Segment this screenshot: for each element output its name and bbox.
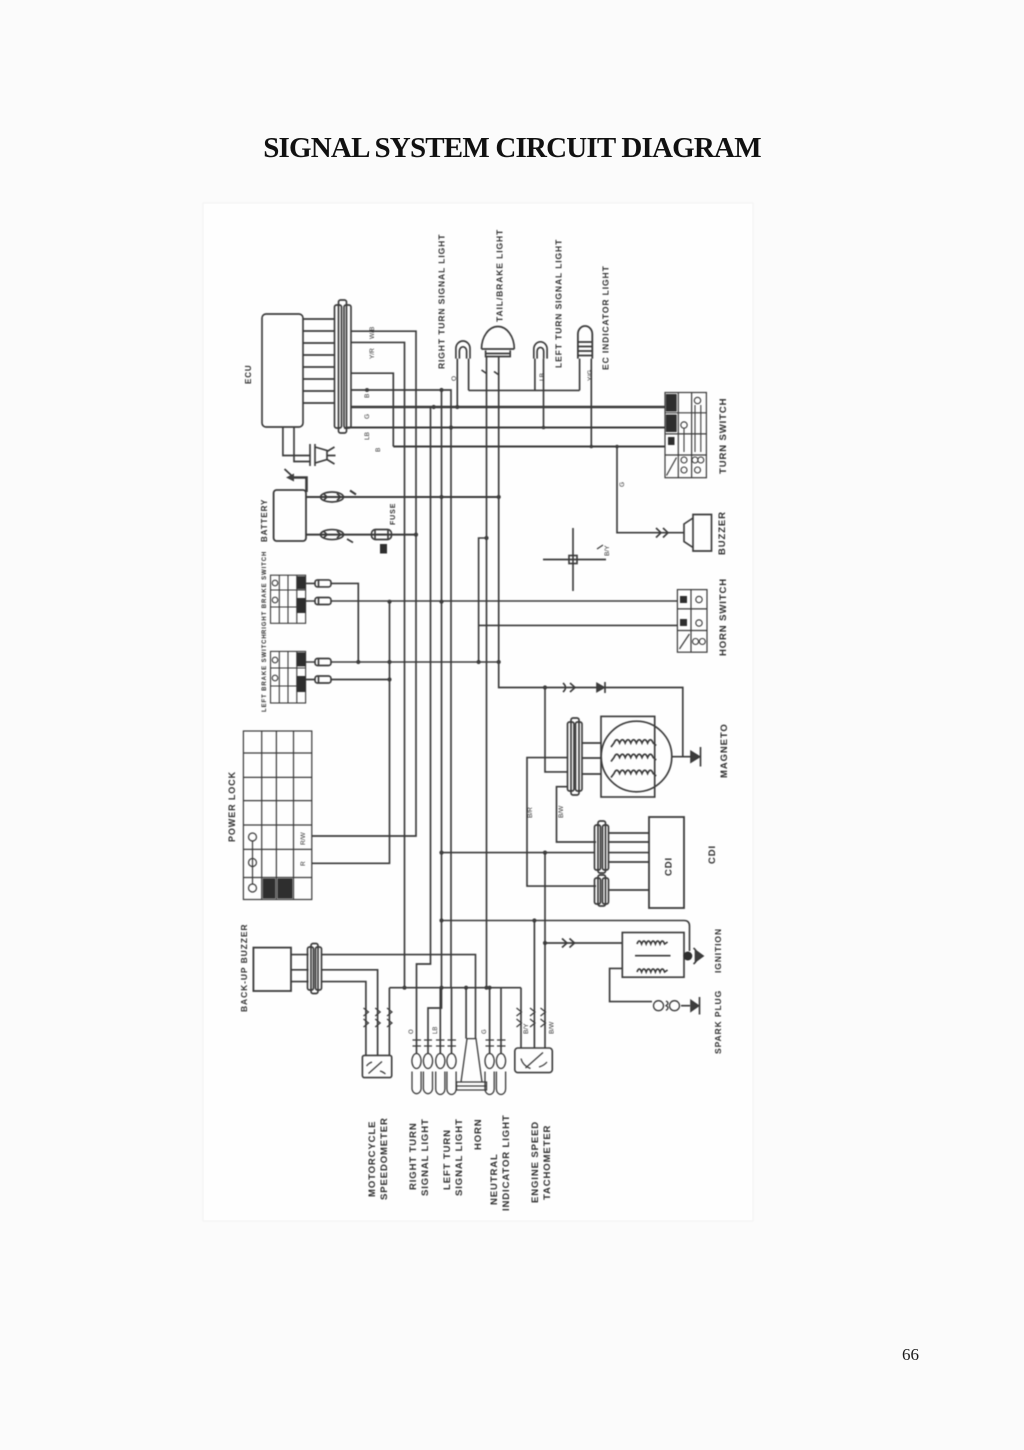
bulb wire ticks: [486, 1040, 506, 1046]
svg-text:B/W: B/W: [549, 1021, 556, 1034]
right turn signal lamp LP1: [456, 341, 470, 359]
- wire tick: [347, 539, 353, 543]
buzzer wire connector chevrons: [656, 528, 668, 538]
LP2 legs: [487, 357, 683, 988]
svg-text:R/W: R/W: [300, 832, 307, 846]
turn switch SW4 grid: [665, 393, 706, 478]
svg-text:MAGNETO: MAGNETO: [719, 723, 730, 778]
brake switch SW2 box: [271, 651, 306, 703]
svg-text:SPEEDOMETER: SPEEDOMETER: [379, 1117, 390, 1200]
svg-text:B: B: [375, 448, 382, 452]
indicator lamp LP4 striped: [578, 326, 592, 359]
left turn signal lamp LP3: [534, 342, 547, 359]
svg-text:G: G: [619, 482, 626, 487]
tail/brake lamp LP2 dome: [482, 327, 515, 357]
magneto comb wires: [582, 743, 601, 774]
svg-text:ENGINE SPEED: ENGINE SPEED: [530, 1121, 541, 1203]
magneto coils: [611, 740, 656, 747]
junction dots top buses: [365, 388, 619, 448]
backup unit box: [253, 948, 291, 991]
svg-text:CDI: CDI: [664, 857, 675, 876]
pair3 wires to bus: [490, 988, 501, 1054]
magneto output wire + ground arrow: [672, 756, 691, 758]
svg-text:BUZZER: BUZZER: [717, 511, 728, 555]
bus3 y446.5: [393, 446, 665, 448]
magneto pin1 wire to CDI low pin: [527, 758, 596, 887]
svg-text:TURN SWITCH: TURN SWITCH: [718, 398, 729, 474]
spark loop bus y920.5: [442, 921, 690, 952]
M1 needle icon: [367, 1062, 386, 1075]
svg-text:EC INDICATOR LIGHT: EC INDICATOR LIGHT: [601, 265, 611, 370]
SW2 pin1 wire = bus662: [306, 661, 499, 663]
svg-text:LEFT BRAKE SWITCH: LEFT BRAKE SWITCH: [262, 633, 268, 712]
primary wire connector chevrons: [562, 939, 575, 948]
coil primary wire: [545, 942, 622, 944]
ECU ground plug symbol: [310, 444, 336, 466]
svg-text:SIGNAL LIGHT: SIGNAL LIGHT: [454, 1118, 465, 1196]
svg-text:W/B: W/B: [369, 327, 376, 339]
bullet connector on - wire: [321, 530, 344, 540]
vertical V4 x441.5: [428, 390, 442, 1053]
bottom bus y988: [389, 987, 521, 989]
svg-text:BATTERY: BATTERY: [260, 499, 269, 542]
fuse holder black mark: [380, 544, 387, 554]
magneto MG1 stator rect: [601, 716, 655, 797]
svg-text:HORN SWITCH: HORN SWITCH: [718, 578, 729, 656]
magneto flywheel circle: [601, 721, 672, 792]
svg-text:SPARK PLUG: SPARK PLUG: [713, 990, 723, 1054]
svg-text:B/R: B/R: [527, 807, 534, 818]
junction dots CDI area: [439, 851, 547, 923]
fuse F1: [372, 530, 392, 540]
CDI connector J3 upper bars: [598, 821, 606, 873]
battery negative wire y534.6: [306, 534, 416, 536]
svg-text:G: G: [482, 1029, 488, 1034]
horn feed vertical x478.6: [479, 538, 678, 662]
svg-text:ECU: ECU: [244, 364, 253, 384]
brake switch SW1 box: [271, 575, 306, 623]
svg-text:HORN: HORN: [473, 1118, 484, 1150]
flasher/ECU box U1: [262, 314, 303, 427]
meter wire connectors (chevrons): [364, 1008, 369, 1027]
bullet connector on + wire: [321, 492, 344, 502]
buzzer BZ1: [684, 515, 712, 552]
SW2 pin terminals: [315, 659, 331, 666]
ECU connector comb wires: [303, 319, 334, 403]
coil ground wire to spark plug: [610, 968, 652, 1001]
speedometer M1 box: [362, 1055, 391, 1077]
cross symbol (frame ground): [543, 528, 606, 591]
bus2 y427.5 from connector bottom stub: [345, 428, 665, 430]
coil windings: [637, 941, 668, 944]
neutral bulb pair: [485, 1054, 506, 1095]
svg-text:MOTORCYCLE: MOTORCYCLE: [367, 1121, 378, 1197]
+ wire tick: [350, 491, 356, 495]
horn H1: [457, 1039, 487, 1090]
battery BT1: [274, 490, 306, 541]
svg-text:IGNITION: IGNITION: [713, 928, 723, 973]
bulb wire ticks: [436, 1040, 456, 1046]
LP2 leg ticks: [482, 370, 500, 375]
connector J1 bars: [339, 300, 347, 433]
scan area background: [203, 203, 753, 1221]
B/Y label with tick: [597, 545, 603, 549]
meter1 third wire from bus: [388, 988, 390, 1056]
wire L1 to power lock pin1 (vertical x416): [312, 331, 416, 836]
svg-text:Y/G: Y/G: [587, 370, 594, 381]
horn switch SW5 grid: [677, 590, 707, 653]
backup comb wires: [291, 955, 309, 982]
CDI comb wires: [609, 833, 650, 890]
backup pin3 wire to meter1: [322, 982, 366, 1056]
SW1 pin1 wire down to bus662: [306, 583, 359, 662]
vertical x389.5 from bus601 to power lock pin2: [312, 602, 390, 864]
svg-text:O: O: [451, 376, 458, 381]
svg-text:B/W: B/W: [558, 805, 565, 818]
wire labels near connector: [364, 327, 382, 452]
front left turn bulb pair: [436, 1054, 456, 1095]
battery arrow symbol: [293, 478, 307, 493]
CDI box U2: [649, 817, 684, 908]
svg-text:TACHOMETER: TACHOMETER: [542, 1125, 553, 1200]
magneto G wire connectors on y687: [563, 683, 575, 692]
battery positive wire y497: [306, 496, 499, 498]
magneto pin3 wire down to CDI pin2: [557, 787, 597, 842]
junction dots mid-left: [356, 495, 501, 682]
tachometer M2 box: [515, 1048, 553, 1073]
junction dots bottom bus: [402, 986, 491, 990]
svg-text:LB: LB: [539, 373, 546, 381]
junction dot coil primary: [543, 941, 547, 945]
horn left wire: [465, 988, 467, 1039]
power lock switch SW3 grid: [243, 731, 311, 900]
svg-text:LB: LB: [433, 1027, 439, 1034]
spark plug SP1 symbols: [654, 1001, 664, 1011]
svg-text:G: G: [364, 414, 371, 419]
backup connector J4 bars: [311, 944, 318, 994]
M2 wire connectors: [517, 1008, 522, 1027]
svg-text:B: B: [364, 394, 371, 398]
svg-text:CDI: CDI: [707, 845, 718, 864]
M2 wires: [534, 853, 545, 1048]
svg-text:TAIL/BRAKE LIGHT: TAIL/BRAKE LIGHT: [495, 229, 505, 322]
backup pin2 wire to meter1: [322, 970, 378, 1056]
bus1 y407 thick: [351, 406, 665, 409]
buzzer wire from bus3: [617, 447, 684, 533]
bottom bus corner to tachometer: [520, 988, 522, 1048]
svg-text:INDICATOR LIGHT: INDICATOR LIGHT: [501, 1114, 512, 1211]
svg-text:B/Y: B/Y: [604, 545, 611, 556]
junction dot G bus: [543, 685, 547, 689]
svg-text:LEFT TURN: LEFT TURN: [442, 1129, 453, 1190]
wire L2 (vertical x404.5 down to bottom bus): [351, 342, 405, 987]
svg-text:LEFT TURN SIGNAL LIGHT: LEFT TURN SIGNAL LIGHT: [554, 239, 564, 368]
svg-text:RIGHT BRAKE SWITCH: RIGHT BRAKE SWITCH: [262, 551, 268, 634]
svg-text:B/Y: B/Y: [523, 1023, 530, 1034]
M2 needle icon: [521, 1053, 547, 1069]
backup pin1 wire to horn: [322, 955, 476, 1039]
svg-text:SIGNAL LIGHT: SIGNAL LIGHT: [420, 1118, 431, 1196]
svg-text:R: R: [300, 861, 307, 866]
ECU ground wires: [283, 427, 310, 462]
magneto connector J2 bars: [571, 718, 579, 795]
lamp ground bus y390: [469, 389, 580, 391]
svg-text:O: O: [409, 1029, 415, 1034]
CDI connector J3 lower bars: [598, 875, 606, 906]
coil HT output dot and plug cap: [683, 952, 692, 961]
svg-text:POWER LOCK: POWER LOCK: [227, 771, 237, 842]
wire L4 (vertical x441.5 down to front bulb jog): [351, 390, 451, 988]
ignition coil T1 box: [622, 933, 684, 978]
svg-text:FUSE: FUSE: [390, 503, 397, 525]
lamp LP1 legs: [457, 359, 468, 407]
SW1 pin2 wire = bus601 to horn switch: [306, 600, 678, 602]
wire L3 feeding bus3: [351, 373, 393, 446]
svg-text:BACK-UP BUZZER: BACK-UP BUZZER: [239, 924, 249, 1012]
svg-text:NEUTRAL: NEUTRAL: [489, 1153, 500, 1205]
svg-text:RIGHT TURN: RIGHT TURN: [408, 1122, 419, 1190]
LP4 legs: [580, 359, 592, 447]
magneto pin2 wire up to G bus: [545, 688, 568, 772]
svg-text:RIGHT TURN SIGNAL LIGHT: RIGHT TURN SIGNAL LIGHT: [437, 234, 447, 369]
SW1 pin terminals: [315, 580, 331, 587]
svg-text:Y/R: Y/R: [369, 348, 376, 359]
vertical V3 x430.5 with jog to bulb x416.5: [417, 407, 431, 1053]
SW2 pin2 wire to vertical x389.5: [306, 679, 390, 681]
CDI feed bus y853: [442, 852, 595, 854]
bulb wire ticks: [413, 1040, 433, 1046]
pair2 wires to bus: [440, 988, 451, 1054]
svg-text:LB: LB: [364, 432, 371, 440]
LP3 legs: [535, 359, 544, 428]
front right turn bulb pair: [412, 1054, 433, 1094]
